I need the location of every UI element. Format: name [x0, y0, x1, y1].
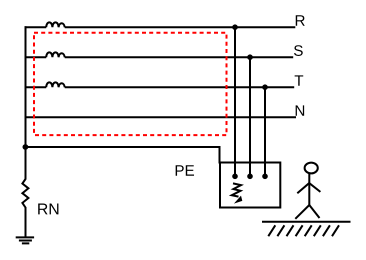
node terminal 2 in box [247, 174, 253, 180]
wire left bus vertical [25, 26, 27, 237]
node terminal 3 in box [262, 174, 268, 180]
label R [296, 15, 305, 25]
label PE [176, 165, 194, 175]
node terminal 1 in box [232, 174, 238, 180]
ground symbol (earth of RN) [16, 237, 34, 243]
label S [294, 45, 303, 56]
fault arrow (insulation breakdown) [232, 183, 243, 203]
wire drop from S to box [249, 57, 251, 176]
equipment enclosure box [220, 163, 280, 208]
earth ground line under person [262, 221, 351, 223]
inductor L1 on phase R [46, 22, 65, 27]
person legs [295, 205, 319, 219]
wire phase R horizontal [25, 26, 296, 28]
person head [305, 163, 318, 174]
resistor RN [22, 179, 28, 208]
node PE tap on bus [23, 144, 29, 150]
label N [296, 105, 304, 115]
wire neutral N horizontal [25, 116, 297, 118]
node on T (tap) [262, 84, 268, 90]
inductor L2 on phase S [46, 52, 65, 57]
wire drop from R to box [234, 27, 236, 176]
red dashed source boundary [34, 33, 227, 135]
person body [308, 174, 310, 205]
earth hatching [268, 225, 339, 236]
node on S (tap) [247, 54, 253, 60]
label T [295, 75, 304, 85]
inductor L3 on phase T [46, 82, 65, 87]
wire drop from T to box [264, 87, 266, 176]
wire PE conductor [26, 147, 220, 164]
wire phase T horizontal [25, 86, 295, 88]
node on R (tap) [232, 24, 238, 30]
person arms [297, 183, 320, 193]
label RN [38, 204, 58, 215]
wire phase S horizontal [25, 56, 294, 58]
